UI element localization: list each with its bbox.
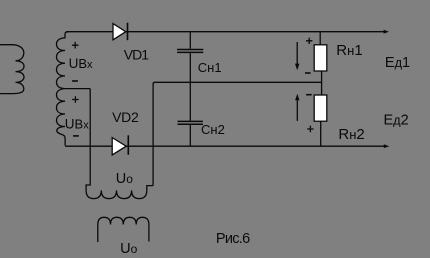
svg-text:Ед2: Ед2	[384, 113, 409, 129]
plus sign lower secondary	[72, 96, 79, 103]
current direction arrow (Rн1, down)	[296, 42, 298, 65]
transformer secondary winding UBx	[57, 32, 69, 146]
svg-text:VD1: VD1	[124, 46, 149, 62]
bottom rail	[65, 145, 385, 147]
svg-text:Рис.6: Рис.6	[216, 231, 250, 247]
svg-text:Сн1: Сн1	[198, 60, 222, 75]
wire: secondary center tap	[65, 88, 90, 90]
minus sign lower secondary	[73, 135, 79, 137]
output winding Uo (coil bumps)	[86, 190, 147, 198]
wire: Uo winding right side jog	[147, 186, 153, 191]
top rail	[66, 31, 385, 33]
capacitor Сн1	[177, 50, 203, 53]
bottom rail arrowhead	[384, 144, 389, 148]
wire between resistors	[321, 71, 323, 95]
minus sign Rн2	[306, 94, 312, 96]
minus sign upper secondary	[72, 80, 78, 82]
capacitor Сн2	[178, 121, 203, 124]
capacitor branch upper wire	[189, 32, 191, 49]
wire: tap branch down to Uo winding (left side)	[86, 89, 90, 191]
resistor Rн1	[314, 45, 327, 71]
svg-text:Ед1: Ед1	[385, 55, 410, 71]
resistor branch top wire	[319, 32, 321, 45]
resistor Rн2	[314, 95, 327, 121]
diode VD2 cathode bar	[127, 135, 129, 155]
minus sign Rн1	[305, 72, 311, 74]
svg-text:Rн1: Rн1	[336, 42, 362, 59]
svg-text:UВх: UВх	[69, 56, 93, 71]
transformer primary winding	[0, 45, 24, 94]
plus sign upper secondary	[72, 42, 79, 49]
svg-text:Сн2: Сн2	[201, 122, 225, 137]
svg-text:VD2: VD2	[112, 109, 139, 125]
inductor Uo (lower symbol)	[98, 217, 149, 242]
svg-text:Uо: Uо	[116, 171, 133, 187]
resistor branch bottom wire	[320, 121, 322, 146]
diode VD1 cathode bar	[127, 23, 129, 41]
wire: middle rail from node A to resistor junction	[153, 82, 322, 185]
svg-text:UВх: UВх	[65, 117, 89, 132]
current direction arrow (Rн2, up)	[296, 100, 298, 121]
diode VD2	[112, 138, 126, 155]
top rail arrowhead	[384, 30, 389, 34]
capacitor branch middle wire	[189, 53, 191, 120]
capacitor branch lower wire	[189, 125, 191, 146]
plus sign Rн1	[306, 38, 312, 44]
plus sign Rн2	[307, 126, 313, 132]
svg-text:Uо: Uо	[120, 241, 137, 257]
svg-text:Rн2: Rн2	[338, 126, 364, 143]
diode VD1	[113, 24, 126, 40]
